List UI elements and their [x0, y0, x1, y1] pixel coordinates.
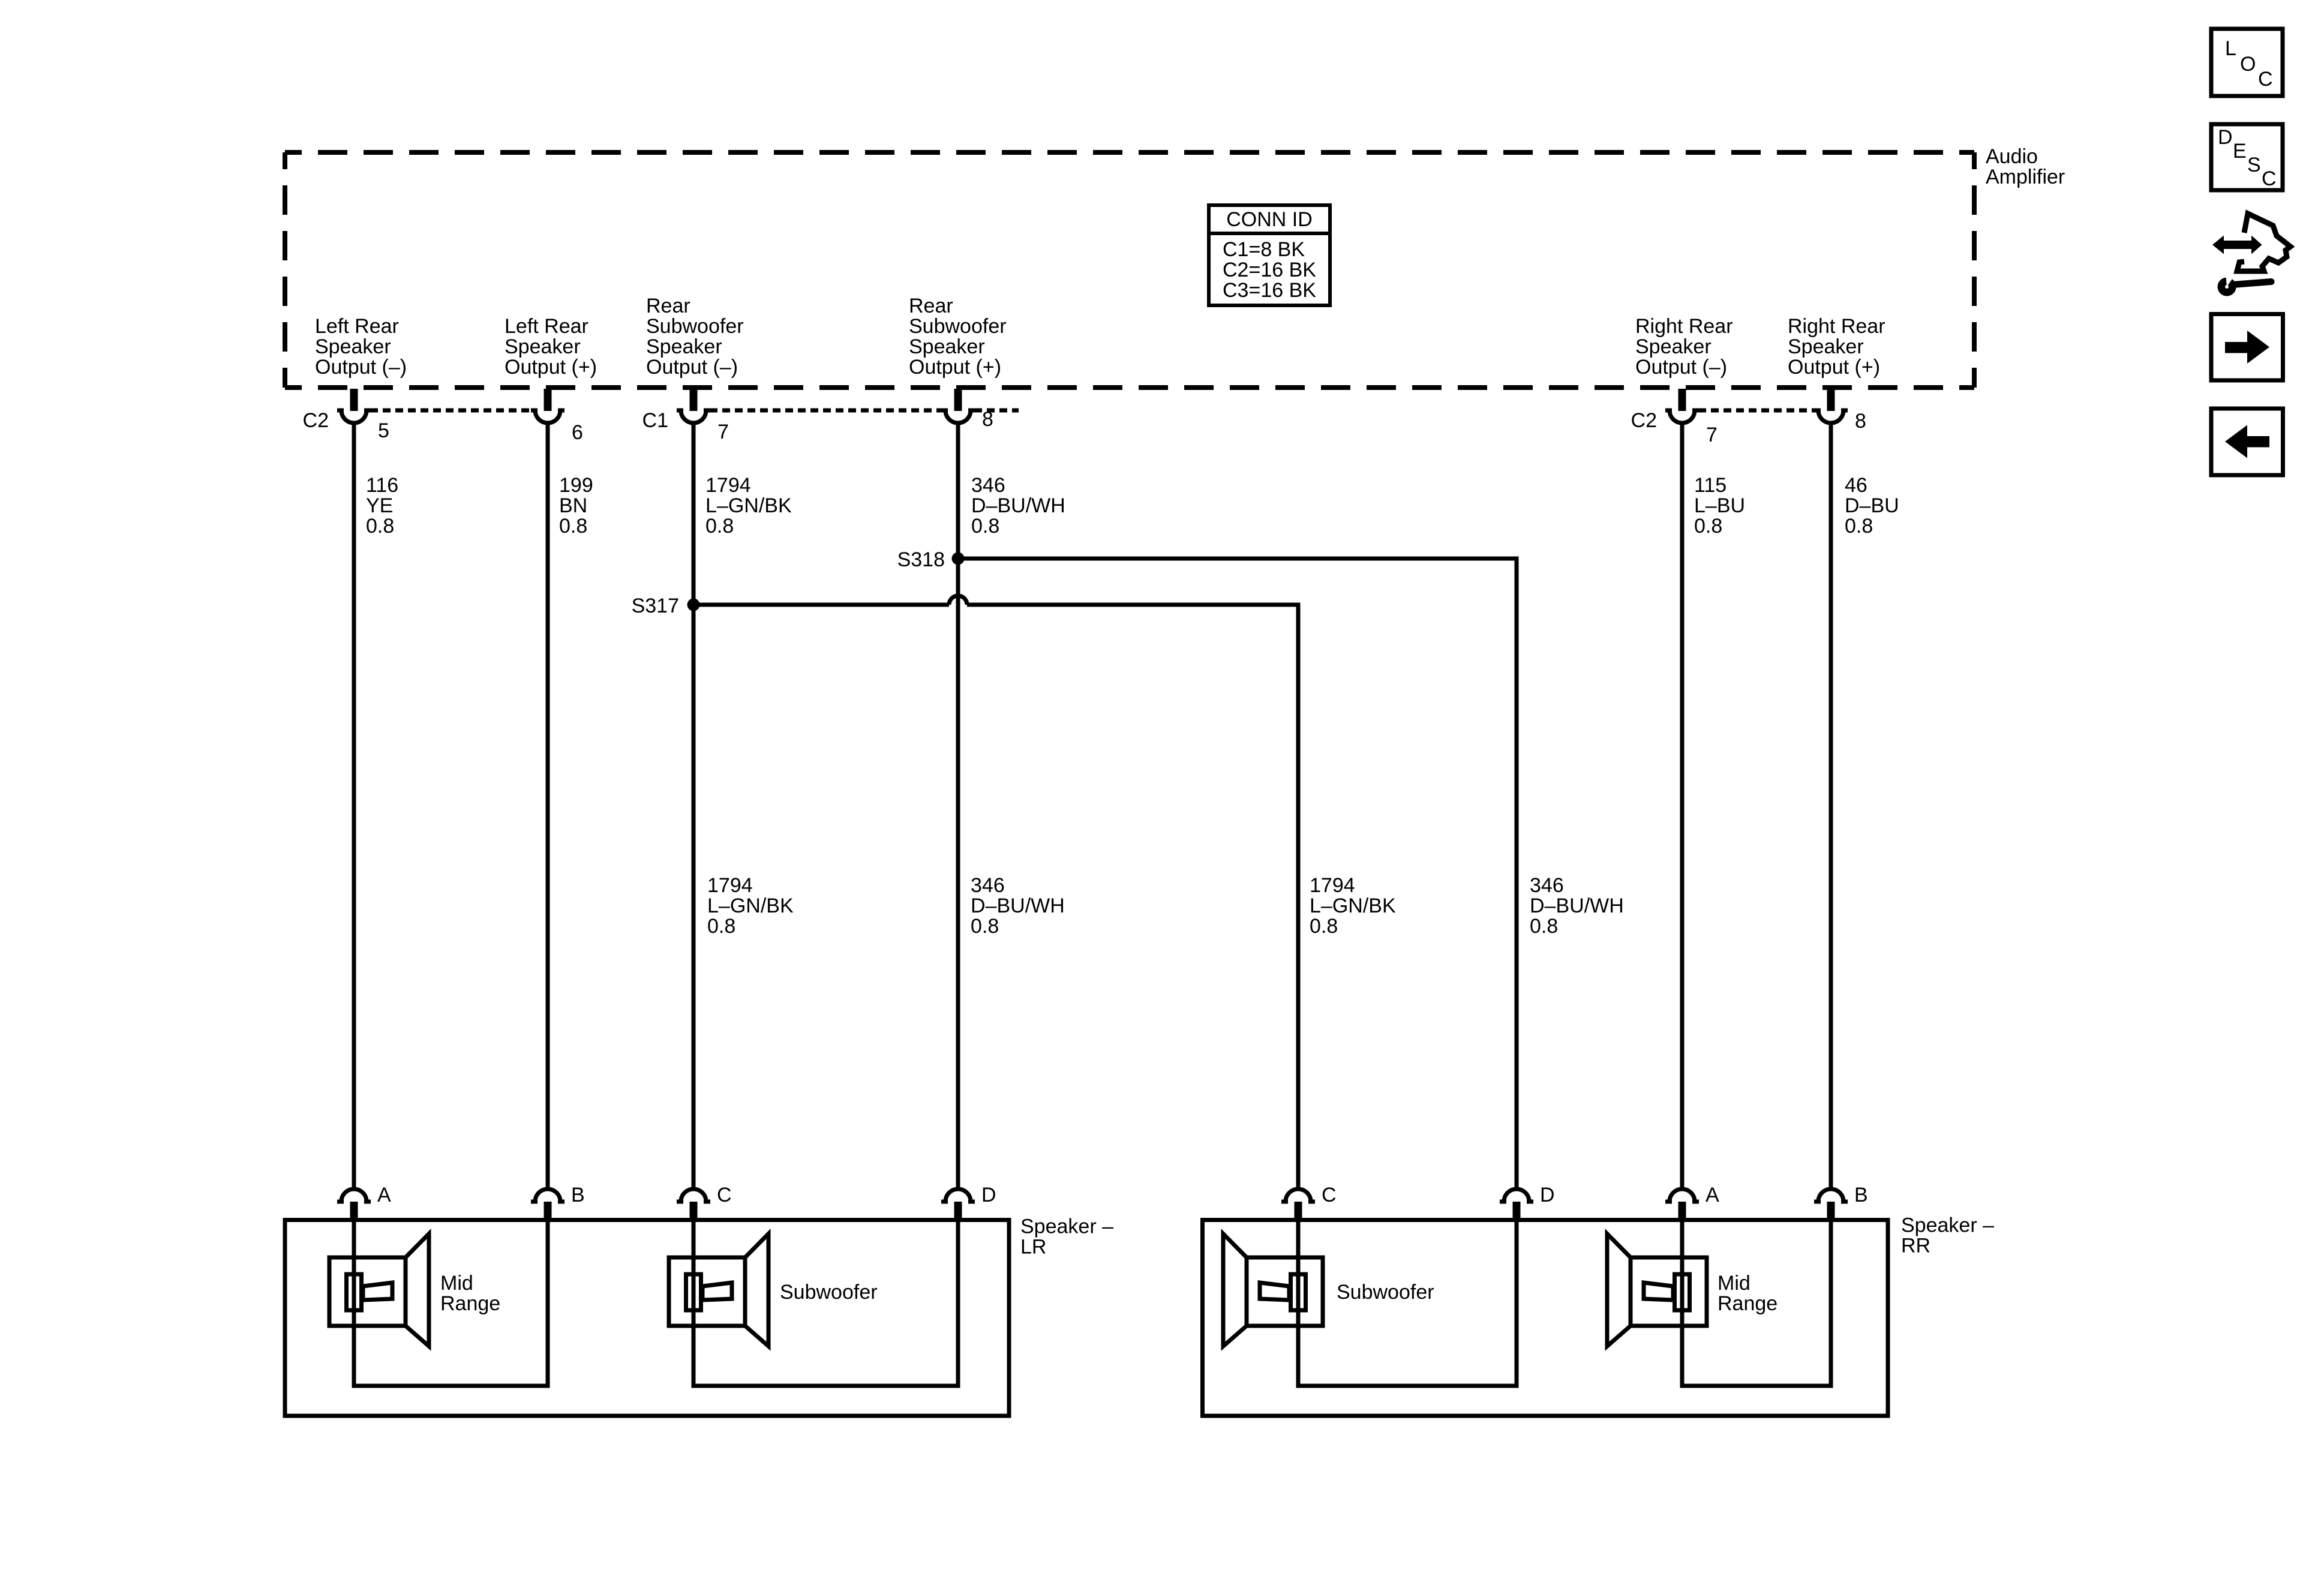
- svg-text:YE: YE: [366, 494, 393, 517]
- svg-text:Speaker: Speaker: [1788, 335, 1864, 358]
- svg-text:346: 346: [1530, 874, 1564, 897]
- svg-text:Speaker: Speaker: [505, 335, 581, 358]
- label Right Rear Speaker Output (+): [1788, 315, 1885, 379]
- svg-text:B: B: [571, 1184, 585, 1206]
- wire label 115 L-BU 0.8: [1694, 474, 1745, 538]
- svg-text:Right Rear: Right Rear: [1788, 315, 1885, 338]
- svg-text:0.8: 0.8: [971, 915, 999, 938]
- svg-text:Speaker –: Speaker –: [1901, 1214, 1994, 1237]
- connector C2 pin 7 (Right Rear Speaker Output -): [1631, 389, 1718, 446]
- svg-text:0.8: 0.8: [1845, 515, 1873, 538]
- svg-text:Speaker: Speaker: [315, 335, 391, 358]
- svg-text:C2=16 BK: C2=16 BK: [1223, 259, 1316, 281]
- svg-text:Subwoofer: Subwoofer: [780, 1281, 878, 1304]
- wire 46 D-BU 0.8 (pin8 C2 to RR speaker B): [1829, 423, 1833, 1188]
- LR subwoofer speaker symbol: [669, 1234, 768, 1347]
- LR mid range internal wiring A-B: [354, 1221, 548, 1386]
- wire 199 BN 0.8 (pin6 to LR speaker B): [546, 423, 550, 1188]
- RR speaker pin A: [1665, 1184, 1719, 1221]
- svg-text:Subwoofer: Subwoofer: [909, 315, 1007, 338]
- LR speaker pin B: [531, 1184, 585, 1221]
- svg-text:46: 46: [1845, 474, 1867, 497]
- wire 115 L-BU 0.8 (pin7 C2 to RR speaker A): [1680, 423, 1685, 1188]
- svg-text:C1: C1: [642, 409, 668, 432]
- label Left Rear Speaker Output (-): [315, 315, 407, 379]
- label Right Rear Speaker Output (-): [1635, 315, 1733, 379]
- Mid Range label (RR): [1718, 1272, 1777, 1315]
- Mid Range label (LR): [440, 1272, 500, 1315]
- svg-text:115: 115: [1694, 474, 1727, 497]
- svg-text:6: 6: [572, 421, 583, 444]
- wire label 346 D-BU/WH 0.8 (lower right): [1530, 874, 1624, 938]
- svg-text:D–BU/WH: D–BU/WH: [971, 494, 1065, 517]
- RR subwoofer internal wiring C-D: [1298, 1221, 1517, 1386]
- connector C1 body dashed line right of pin 8: [974, 409, 1019, 413]
- LR subwoofer internal wiring C-D: [693, 1221, 958, 1386]
- svg-text:D: D: [981, 1184, 996, 1206]
- connector C1 pin 8 (Rear Subwoofer Speaker Output +): [941, 389, 993, 431]
- CONN ID table: [1209, 205, 1330, 305]
- svg-text:Output (+): Output (+): [1788, 356, 1880, 379]
- Speaker - RR box: [1203, 1220, 1888, 1416]
- RR speaker pin C: [1281, 1184, 1337, 1221]
- svg-text:O: O: [2240, 53, 2256, 76]
- svg-text:C2: C2: [1631, 409, 1657, 432]
- svg-text:116: 116: [366, 474, 398, 497]
- svg-text:C3=16 BK: C3=16 BK: [1223, 279, 1316, 302]
- Audio Amplifier dashed box U280: [285, 152, 1974, 388]
- svg-text:1794: 1794: [705, 474, 751, 497]
- svg-text:7: 7: [1706, 424, 1718, 446]
- svg-text:Output (–): Output (–): [646, 356, 738, 379]
- LR speaker pin A: [337, 1184, 391, 1221]
- wire label 116 YE 0.8: [366, 474, 398, 538]
- LOC icon box: [2211, 29, 2283, 96]
- Subwoofer label (LR): [780, 1281, 878, 1304]
- svg-text:C: C: [1322, 1184, 1337, 1206]
- RR speaker pin D: [1500, 1184, 1555, 1221]
- svg-text:C2: C2: [303, 409, 329, 432]
- svg-text:Output (+): Output (+): [909, 356, 1001, 379]
- connector C2 pin 8 (Right Rear Speaker Output +): [1814, 389, 1866, 433]
- svg-text:346: 346: [971, 874, 1005, 897]
- svg-text:Subwoofer: Subwoofer: [646, 315, 744, 338]
- svg-text:7: 7: [717, 421, 729, 443]
- svg-text:8: 8: [1855, 410, 1866, 433]
- svg-text:C: C: [2262, 167, 2277, 190]
- svg-text:Output (–): Output (–): [1635, 356, 1727, 379]
- svg-text:D: D: [1540, 1184, 1555, 1206]
- label Left Rear Speaker Output (+): [505, 315, 597, 379]
- svg-text:Right Rear: Right Rear: [1635, 315, 1733, 338]
- svg-text:S318: S318: [897, 548, 945, 571]
- svg-text:BN: BN: [559, 494, 587, 517]
- wire label 1794 L-GN/BK 0.8 (lower left): [707, 874, 794, 938]
- svg-text:0.8: 0.8: [366, 515, 394, 538]
- svg-text:Speaker: Speaker: [1635, 335, 1712, 358]
- svg-text:Mid: Mid: [1718, 1272, 1750, 1295]
- label Rear Subwoofer Speaker Output (-): [646, 295, 744, 379]
- wire from S318 to RR speaker D (346 D-BU/WH): [958, 559, 1517, 1188]
- svg-text:0.8: 0.8: [1310, 915, 1338, 938]
- harness connector-face icon with double arrow: [2212, 214, 2290, 271]
- wire label 346 D-BU/WH 0.8: [971, 474, 1065, 538]
- wire label 46 D-BU 0.8: [1845, 474, 1899, 538]
- svg-text:C: C: [2258, 68, 2273, 91]
- connector C1 body dashed line: [710, 409, 942, 413]
- RR subwoofer speaker symbol: [1223, 1234, 1323, 1347]
- svg-text:0.8: 0.8: [971, 515, 999, 538]
- svg-text:L: L: [2225, 37, 2236, 60]
- RR speaker pin B: [1814, 1184, 1868, 1221]
- LR mid range speaker symbol: [329, 1234, 429, 1347]
- svg-text:Amplifier: Amplifier: [1986, 166, 2065, 188]
- svg-text:Range: Range: [1718, 1292, 1777, 1315]
- svg-text:A: A: [377, 1184, 391, 1206]
- connector C2 pin 5 (Left Rear Speaker Output -): [303, 389, 389, 442]
- svg-text:Range: Range: [440, 1292, 500, 1315]
- RR mid range speaker symbol: [1607, 1234, 1707, 1347]
- svg-text:A: A: [1706, 1184, 1719, 1206]
- wire label 199 BN 0.8: [559, 474, 593, 538]
- connector C1 pin 7 (Rear Subwoofer Speaker Output -): [642, 389, 729, 443]
- splice S318: [897, 548, 965, 571]
- svg-text:1794: 1794: [707, 874, 753, 897]
- svg-text:D–BU/WH: D–BU/WH: [1530, 894, 1624, 917]
- svg-text:L–GN/BK: L–GN/BK: [1310, 894, 1396, 917]
- LR speaker pin C: [677, 1184, 732, 1221]
- RR mid range internal wiring A-B: [1682, 1221, 1831, 1386]
- svg-text:Left Rear: Left Rear: [505, 315, 588, 338]
- svg-text:Output (+): Output (+): [505, 356, 597, 379]
- Audio Amplifier label: [1986, 145, 2065, 188]
- svg-text:Rear: Rear: [646, 295, 690, 317]
- left arrow icon box: [2211, 409, 2283, 475]
- svg-text:0.8: 0.8: [707, 915, 735, 938]
- label Rear Subwoofer Speaker Output (+): [909, 295, 1007, 379]
- svg-text:S: S: [2247, 154, 2261, 176]
- svg-text:346: 346: [971, 474, 1005, 497]
- svg-text:Output (–): Output (–): [315, 356, 407, 379]
- svg-text:0.8: 0.8: [559, 515, 587, 538]
- wire label 346 D-BU/WH 0.8 (lower left): [971, 874, 1065, 938]
- svg-text:Speaker –: Speaker –: [1020, 1215, 1113, 1238]
- svg-text:S317: S317: [632, 595, 679, 617]
- svg-text:Mid: Mid: [440, 1272, 473, 1295]
- Speaker - LR label: [1020, 1215, 1113, 1259]
- wire 346 D-BU/WH 0.8 (pin8 C1 to LR speaker D): [956, 423, 960, 1188]
- svg-text:C: C: [717, 1184, 732, 1206]
- wire from S317 to RR speaker C (1794 L-GN/BK) with crossover hop: [693, 596, 1298, 1188]
- svg-text:Rear: Rear: [909, 295, 953, 317]
- svg-text:CONN ID: CONN ID: [1226, 208, 1313, 231]
- svg-text:B: B: [1854, 1184, 1868, 1206]
- svg-text:Speaker: Speaker: [646, 335, 722, 358]
- wire 116 YE 0.8 (pin5 to LR speaker A): [352, 423, 356, 1188]
- svg-text:L–GN/BK: L–GN/BK: [707, 894, 794, 917]
- svg-text:Audio: Audio: [1986, 145, 2038, 168]
- svg-text:L–BU: L–BU: [1694, 494, 1745, 517]
- svg-text:C1=8 BK: C1=8 BK: [1223, 238, 1305, 261]
- svg-text:Speaker: Speaker: [909, 335, 985, 358]
- svg-text:D: D: [2218, 126, 2233, 149]
- svg-text:Left Rear: Left Rear: [315, 315, 399, 338]
- DESC icon box: [2211, 124, 2283, 190]
- Subwoofer label (RR): [1337, 1281, 1434, 1304]
- Speaker - LR box: [285, 1220, 1009, 1416]
- svg-text:L–GN/BK: L–GN/BK: [705, 494, 792, 517]
- svg-text:D–BU/WH: D–BU/WH: [971, 894, 1065, 917]
- svg-text:5: 5: [378, 419, 389, 442]
- LR speaker pin D: [941, 1184, 996, 1221]
- svg-text:Subwoofer: Subwoofer: [1337, 1281, 1434, 1304]
- splice S317: [632, 595, 700, 617]
- wire label 1794 L-GN/BK 0.8 (lower right): [1310, 874, 1396, 938]
- svg-text:199: 199: [559, 474, 593, 497]
- svg-text:0.8: 0.8: [705, 515, 734, 538]
- wire 1794 L-GN/BK 0.8 (pin7 C1 to LR speaker C): [692, 423, 696, 1188]
- Speaker - RR label: [1901, 1214, 1994, 1257]
- svg-text:RR: RR: [1901, 1235, 1930, 1257]
- connector C2 right body dashed line: [1698, 409, 1815, 413]
- svg-text:0.8: 0.8: [1530, 915, 1558, 938]
- svg-text:E: E: [2233, 140, 2247, 163]
- connector C2 left body dashed line: [370, 409, 532, 413]
- connector C2 pin 6 (Left Rear Speaker Output +): [531, 389, 583, 444]
- svg-text:0.8: 0.8: [1694, 515, 1722, 538]
- svg-text:LR: LR: [1020, 1236, 1046, 1259]
- svg-text:1794: 1794: [1310, 874, 1355, 897]
- wrench icon: [2218, 278, 2271, 296]
- right arrow icon box: [2211, 314, 2283, 381]
- svg-text:D–BU: D–BU: [1845, 494, 1899, 517]
- wire label 1794 L-GN/BK 0.8: [705, 474, 792, 538]
